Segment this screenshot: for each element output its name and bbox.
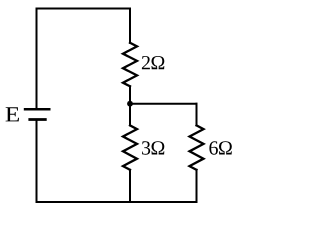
label 2 ohm <box>142 56 164 69</box>
node junction dot <box>127 101 133 107</box>
wire 3-ohm top lead <box>129 104 131 126</box>
wire 2-ohm bottom lead to node <box>129 86 131 103</box>
resistor 6ohm zigzag <box>190 125 204 169</box>
wire 6-ohm bottom lead <box>196 170 198 202</box>
battery E plate long (top) <box>24 108 51 111</box>
wire left lower (E bottom lead) <box>36 120 38 203</box>
wire top <box>37 8 131 10</box>
label 6 ohm <box>209 141 231 154</box>
label 3 ohm <box>142 141 164 154</box>
resistor 2ohm zigzag <box>123 43 137 87</box>
wire 2-ohm branch top lead <box>129 9 131 43</box>
wire bottom <box>37 201 197 203</box>
battery E plate short (bottom) <box>28 118 46 121</box>
wire 3-ohm bottom lead <box>129 170 131 202</box>
label E <box>6 107 19 121</box>
wire left upper (E top lead) <box>36 9 38 110</box>
wire 6-ohm top lead <box>196 104 198 126</box>
wire node to right branch <box>130 103 197 105</box>
resistor 3ohm zigzag <box>123 125 137 169</box>
